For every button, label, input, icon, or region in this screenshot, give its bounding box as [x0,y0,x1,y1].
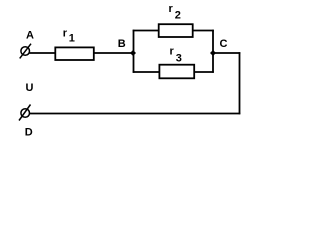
svg-text:r: r [169,3,174,15]
svg-text:r: r [170,46,175,58]
svg-text:B: B [118,38,126,50]
svg-text:A: A [26,30,34,42]
svg-text:r: r [63,28,68,40]
svg-text:U: U [26,82,34,94]
svg-text:3: 3 [176,53,182,65]
svg-text:2: 2 [175,10,181,22]
svg-text:1: 1 [69,33,75,45]
svg-text:D: D [25,127,33,139]
svg-text:C: C [220,38,228,50]
